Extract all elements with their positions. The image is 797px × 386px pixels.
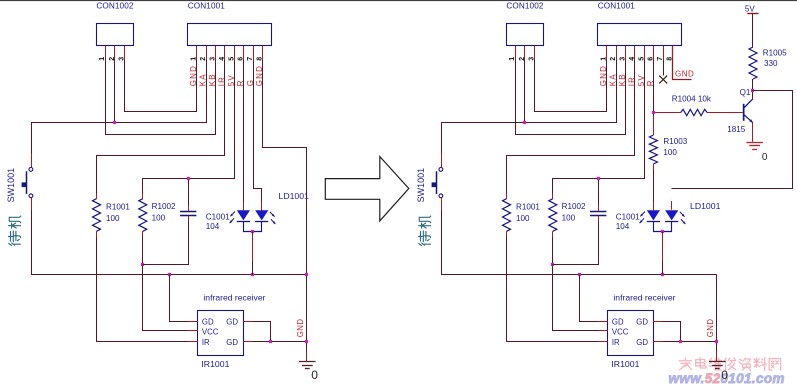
LED 2 emission arrows <box>680 212 685 217</box>
svg-text:4: 4 <box>629 57 636 61</box>
svg-text:5: 5 <box>228 57 235 61</box>
ground symbol Q1 emitter <box>746 142 763 144</box>
resistor R1002 (left) <box>139 199 147 232</box>
wire R1003 stubs <box>653 116 655 135</box>
top window border <box>0 0 797 1</box>
svg-text:CON1001: CON1001 <box>188 2 225 11</box>
svg-text:GD: GD <box>202 317 214 326</box>
node R1004 junction on pin6 column <box>652 111 655 114</box>
node LED cathode junction <box>251 230 254 233</box>
node 5V junction at C1001 top <box>597 177 600 180</box>
wire net KA: SW1001 top - CON1002 pin2 - CON1001 pin2 <box>32 47 207 168</box>
svg-text:R1002: R1002 <box>562 202 586 211</box>
ground symbol bottom (right) <box>709 361 726 363</box>
capacitor C1001 (right) <box>590 211 606 213</box>
svg-text:0: 0 <box>721 368 728 382</box>
connector CON1001 (right) <box>598 24 682 46</box>
node rail-LED junction <box>251 273 254 276</box>
wire R1001 bottom to IR1001 IR pin <box>97 232 198 342</box>
svg-text:3: 3 <box>528 57 535 61</box>
svg-text:1815: 1815 <box>727 125 746 134</box>
wire C1001 top stub <box>188 178 190 211</box>
svg-text:330: 330 <box>764 59 778 68</box>
IC IR1001 infrared receiver (right) <box>608 311 654 356</box>
LED 1 emission arrows <box>230 212 235 217</box>
LED 1 triangle <box>237 210 250 220</box>
switch SW1001 (left) <box>29 168 33 172</box>
svg-text:VCC: VCC <box>202 328 219 337</box>
wire junction down to R1003 <box>653 113 655 136</box>
node VCC/C1001 junction <box>551 263 554 266</box>
svg-text:IR: IR <box>612 338 620 347</box>
wire R1001 bottom to IR1001 IR pin <box>507 232 608 342</box>
svg-text:KB: KB <box>618 73 627 86</box>
wire ground column from rail down <box>716 275 718 362</box>
node 5V junction at C1001 top <box>187 177 190 180</box>
svg-text:LD1001: LD1001 <box>279 191 310 201</box>
svg-text:KA: KA <box>199 73 208 86</box>
svg-text:1: 1 <box>99 57 106 61</box>
svg-text:GD: GD <box>226 317 238 326</box>
node KA junction at CON1002 pin2 <box>523 121 526 124</box>
svg-text:GND: GND <box>296 318 305 337</box>
svg-text:100: 100 <box>152 214 166 223</box>
node LED cathode junction <box>661 230 664 233</box>
svg-text:GD: GD <box>636 317 648 326</box>
wire bottom rail (SW1001 to ground column) <box>31 274 307 276</box>
wire net G: CON1001 pin7 to LED anode 2 <box>254 47 262 211</box>
LED 1 emission arrows <box>640 212 645 217</box>
wire C1001 bottom to VCC net <box>143 216 189 265</box>
svg-text:5V: 5V <box>745 5 755 14</box>
svg-text:GND: GND <box>255 65 264 86</box>
svg-text:5: 5 <box>638 57 645 61</box>
node VCC/C1001 junction <box>141 263 144 266</box>
wire SW1001 bottom to rail <box>441 198 443 275</box>
svg-text:SW1001: SW1001 <box>6 168 16 203</box>
node rail-LED junction <box>661 273 664 276</box>
svg-text:R1005: R1005 <box>763 48 787 57</box>
svg-text:R: R <box>646 79 655 86</box>
svg-text:100: 100 <box>663 148 677 157</box>
svg-text:GD: GD <box>226 338 238 347</box>
svg-text:R1003: R1003 <box>663 137 687 146</box>
svg-text:104: 104 <box>206 222 220 231</box>
connector CON1002 (right) <box>507 24 544 46</box>
svg-text:2: 2 <box>610 57 617 61</box>
pin stubs (red) <box>105 46 107 60</box>
svg-text:C1001: C1001 <box>616 213 640 222</box>
svg-text:0: 0 <box>311 368 318 382</box>
switch SW1001 (right) <box>439 168 443 172</box>
node GD junction <box>679 340 682 343</box>
svg-text:GND: GND <box>706 318 715 337</box>
svg-text:2: 2 <box>109 57 116 61</box>
svg-text:2: 2 <box>519 57 526 61</box>
LED 1 cathode bar <box>647 221 660 223</box>
resistor R1002 (right) <box>549 199 557 232</box>
wire R1003 bottom to LED anode 1 <box>653 164 655 210</box>
wire LED cathode down to rail <box>662 232 664 275</box>
svg-text:SW1001: SW1001 <box>416 168 426 203</box>
svg-text:R1001: R1001 <box>106 203 130 212</box>
svg-text:104: 104 <box>616 222 630 231</box>
svg-text:100: 100 <box>562 214 576 223</box>
node rail-ground column junction <box>305 273 308 276</box>
svg-text:CON1002: CON1002 <box>506 2 543 11</box>
pin stubs (red) <box>515 46 517 60</box>
svg-text:0: 0 <box>762 152 768 163</box>
svg-text:KA: KA <box>609 73 618 86</box>
wire 5V to R1005 <box>752 13 754 47</box>
svg-text:infrared receiver: infrared receiver <box>203 293 265 303</box>
wire net IR: CON1001 pin4 - R1001 top <box>507 47 635 199</box>
wire CON1001 pin7 stub (cut) <box>663 46 665 76</box>
svg-text:KB: KB <box>208 73 217 86</box>
wire Q1 emitter to ground <box>752 123 754 142</box>
svg-text:Q1: Q1 <box>740 88 751 97</box>
wire IR1001 right GD bottom to ground column <box>243 341 306 343</box>
svg-text:CON1001: CON1001 <box>598 2 635 11</box>
connector CON1001 (left) <box>188 24 272 46</box>
svg-text:GND: GND <box>675 69 694 78</box>
ground symbol bottom (left) <box>299 361 316 363</box>
LED 2 cathode bar <box>665 221 678 223</box>
wire pin6 to R1004/R1003 junction <box>653 46 655 113</box>
wire net KB: CON1002 pin1 - CON1001 pin3 <box>516 47 626 135</box>
wire R1005 bottom to Q1 collector <box>752 79 754 99</box>
wire C1001 bottom to VCC net <box>553 216 599 265</box>
svg-text:LD1001: LD1001 <box>690 201 721 211</box>
node rail-GD junction <box>168 273 171 276</box>
wire IR1001 right GD top to GD bottom <box>244 322 271 342</box>
no-connect X on pin7 <box>659 76 667 84</box>
wire base net <box>653 112 680 114</box>
svg-text:GND: GND <box>189 65 198 86</box>
svg-text:R1001: R1001 <box>516 203 540 212</box>
svg-text:C1001: C1001 <box>206 213 230 222</box>
node ground column junction <box>715 340 718 343</box>
svg-text:infrared receiver: infrared receiver <box>613 293 675 303</box>
svg-text:3: 3 <box>619 57 626 61</box>
wire LED cathode join <box>654 222 672 232</box>
svg-text:100: 100 <box>516 214 530 223</box>
standby label (chinese) (left) <box>9 216 21 245</box>
svg-text:5V: 5V <box>227 74 236 86</box>
svg-text:VCC: VCC <box>612 328 629 337</box>
LED 2 cathode bar <box>255 221 268 223</box>
svg-text:R1002: R1002 <box>152 202 176 211</box>
resistor R1001 (right) <box>503 199 511 232</box>
svg-text:7: 7 <box>247 57 254 61</box>
node ground column junction <box>305 340 308 343</box>
svg-text:CON1002: CON1002 <box>96 2 133 11</box>
wire collector loop to LED anode 2 <box>672 91 793 189</box>
svg-text:IR1001: IR1001 <box>611 359 639 369</box>
svg-text:GD: GD <box>636 338 648 347</box>
svg-text:1: 1 <box>191 57 198 61</box>
node KA junction at CON1002 pin2 <box>113 121 116 124</box>
svg-text:8: 8 <box>257 57 264 61</box>
wire net GND: CON1002 pin3 - CON1001 pin1 <box>535 47 607 112</box>
node collector junction <box>751 89 754 92</box>
wire IR1001 right GD bottom to ground column <box>653 341 717 343</box>
wire IR1001 left GD pin to rail <box>580 275 608 322</box>
resistor R1005 <box>749 47 757 79</box>
wire SW1001 bottom to rail <box>31 198 33 275</box>
wire CON1001 pin8 to GND power port <box>673 47 692 80</box>
svg-text:3: 3 <box>209 57 216 61</box>
svg-text:IR1001: IR1001 <box>201 359 229 369</box>
watermark text (chinese) <box>679 358 780 371</box>
svg-text:1: 1 <box>601 57 608 61</box>
wire R1002 bottom to IR1001 VCC pin <box>553 232 608 331</box>
wire net 5V: CON1001 pin5 - R1002 top - C1001 top <box>143 47 235 199</box>
wire IR1001 left GD pin to rail <box>170 275 198 322</box>
svg-text:IR: IR <box>628 76 637 86</box>
LED 2 triangle <box>255 210 268 220</box>
svg-text:R1004 10k: R1004 10k <box>672 95 712 104</box>
node GD junction <box>269 340 272 343</box>
svg-text:R: R <box>236 79 245 86</box>
wire net IR: CON1001 pin4 - R1001 top <box>97 47 225 199</box>
wire bottom rail (SW1001 to ground column) <box>441 274 717 276</box>
wire net 5V: CON1001 pin5 - R1002 top - C1001 top <box>553 47 645 199</box>
svg-text:5V: 5V <box>637 74 646 86</box>
svg-text:2: 2 <box>200 57 207 61</box>
svg-text:GD: GD <box>612 317 624 326</box>
connector CON1002 (left) <box>97 24 134 46</box>
IC IR1001 infrared receiver (left) <box>198 311 244 356</box>
svg-text:8: 8 <box>667 57 674 61</box>
LED 2 emission arrows <box>270 212 275 217</box>
capacitor C1001 (left) <box>180 211 196 213</box>
transformation arrow <box>325 157 409 221</box>
node rail-GD junction <box>578 273 581 276</box>
svg-text:6: 6 <box>647 57 654 61</box>
svg-text:6: 6 <box>237 57 244 61</box>
wire net R: CON1001 pin6 down to LED anode 1 <box>243 46 245 210</box>
wire net KB: CON1002 pin1 - CON1001 pin3 <box>106 47 216 135</box>
resistor R1001 (left) <box>93 199 101 232</box>
svg-text:100: 100 <box>106 214 120 223</box>
standby label (chinese) (right) <box>419 216 431 245</box>
svg-text:IR: IR <box>218 76 227 86</box>
LED 2 triangle <box>665 210 678 220</box>
svg-text:3: 3 <box>118 57 125 61</box>
svg-text:GND: GND <box>599 65 608 86</box>
wire net GND: CON1002 pin3 - CON1001 pin1 <box>125 47 197 112</box>
wire LED cathode down to rail <box>252 232 254 275</box>
svg-text:IR: IR <box>202 338 210 347</box>
wire IR1001 right GD top to GD bottom <box>654 322 681 342</box>
LED 1 triangle <box>647 210 660 220</box>
svg-text:7: 7 <box>657 57 664 61</box>
wire net KA: SW1001 top - CON1002 pin2 - CON1001 pin2 <box>442 47 617 168</box>
LED 1 cathode bar <box>237 221 250 223</box>
wire LED cathode join <box>244 222 262 232</box>
wire net GND: CON1001 pin8 right and down to ground <box>263 47 307 362</box>
svg-text:4: 4 <box>219 57 226 61</box>
wire R1002 bottom to IR1001 VCC pin <box>143 232 198 331</box>
wire C1001 top stub <box>598 178 600 211</box>
svg-text:G: G <box>246 79 255 86</box>
svg-text:1: 1 <box>509 57 516 61</box>
resistor R1003 <box>649 135 657 164</box>
